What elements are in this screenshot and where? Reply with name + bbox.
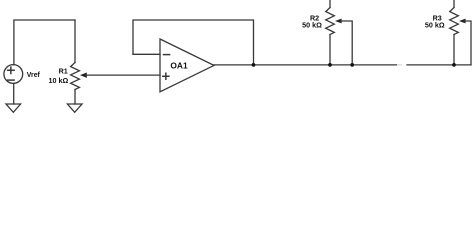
svg-text:Vref: Vref (27, 72, 41, 79)
resistor R2 potentiometer body (326, 8, 335, 35)
label R3 (433, 14, 442, 23)
label Vref (27, 72, 41, 79)
node R2 bottom junction (328, 63, 332, 67)
wire Vref top lead (14, 20, 75, 65)
wire R3 wiper return (465, 21, 472, 65)
wiper arrow of R1 (80, 73, 87, 78)
voltage source Vref (4, 65, 23, 84)
resistor R3 potentiometer body (450, 8, 459, 35)
wire R1 bottom lead (74, 90, 76, 105)
svg-text:10 kΩ: 10 kΩ (49, 76, 69, 85)
wire bus right segment (407, 64, 471, 66)
label 10 kOhm (49, 76, 69, 85)
label OA1 (170, 61, 188, 71)
label R1 (59, 67, 68, 76)
wire R3 bottom lead (453, 35, 455, 65)
wire feedback loop (133, 20, 254, 65)
label 50 kOhm R2 (302, 21, 322, 30)
svg-text:50 kΩ: 50 kΩ (425, 21, 445, 30)
wire inverting input (133, 53, 160, 55)
wiper arrow of R3 (459, 19, 466, 24)
node feedback junction (252, 63, 256, 67)
node R3 bottom junction (452, 63, 456, 67)
node R2 wiper junction (350, 63, 354, 67)
wire op-amp output bus (214, 64, 397, 66)
wire R2 bottom lead (329, 35, 331, 65)
label 50 kOhm R3 (425, 21, 445, 30)
wiper arrow of R2 (335, 19, 342, 24)
svg-text:R1: R1 (59, 67, 68, 76)
wire R1 top lead (74, 20, 76, 63)
label R2 (310, 14, 319, 23)
wire R2 top lead (329, 0, 331, 8)
wire R1 wiper to op-amp noninverting input (86, 74, 161, 76)
ground under R1 (67, 104, 82, 112)
wire R3 top lead (453, 0, 455, 8)
wire break continuation mark (398, 64, 401, 66)
op-amp OA1 (160, 39, 214, 92)
svg-text:50 kΩ: 50 kΩ (302, 21, 322, 30)
ground under Vref (6, 104, 21, 112)
resistor R1 potentiometer body (71, 63, 80, 90)
svg-text:OA1: OA1 (170, 61, 188, 71)
wire Vref bottom lead (13, 83, 15, 104)
wire R2 wiper return (341, 21, 353, 65)
